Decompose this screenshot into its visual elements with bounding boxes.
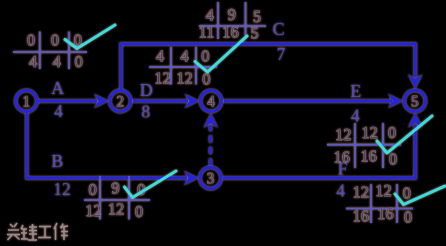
- wire A arrow 1-2: [38, 94, 108, 109]
- wire B arrow 1-3 bottom route: [27, 113, 199, 185]
- svg-text:0: 0: [135, 202, 143, 221]
- svg-text:12: 12: [108, 200, 125, 219]
- node 2: [110, 91, 131, 112]
- svg-text:12: 12: [154, 69, 171, 88]
- table D values row2 12 12 0: [154, 69, 210, 89]
- node 5: [404, 90, 425, 111]
- svg-text:9: 9: [228, 5, 236, 24]
- svg-text:0: 0: [51, 30, 59, 49]
- svg-text:D: D: [140, 80, 153, 100]
- svg-text:5: 5: [250, 23, 258, 42]
- svg-text:0: 0: [27, 30, 35, 49]
- svg-text:1: 1: [22, 94, 30, 111]
- table E values row1 12 12 0: [335, 123, 396, 144]
- table B values row1 0 9 0: [88, 179, 145, 199]
- table A times grid: [13, 32, 87, 70]
- svg-text:16: 16: [222, 23, 239, 42]
- svg-text:16: 16: [334, 147, 351, 166]
- svg-text:12: 12: [335, 125, 352, 144]
- table F values row1 12 12 0: [353, 181, 411, 203]
- svg-text:B: B: [51, 151, 63, 171]
- check mark 3 (table E): [377, 116, 432, 153]
- svg-text:4: 4: [54, 101, 63, 121]
- svg-text:4: 4: [180, 46, 188, 65]
- wire E arrow 4-5: [224, 94, 402, 109]
- svg-text:0: 0: [403, 184, 411, 203]
- svg-text:0: 0: [201, 46, 209, 65]
- svg-text:0: 0: [74, 52, 82, 71]
- wire D arrow 2-4: [133, 94, 199, 109]
- svg-text:5: 5: [411, 94, 419, 111]
- table F values row2 16 16 0: [353, 204, 413, 227]
- svg-text:E: E: [350, 81, 361, 101]
- node 4: [201, 91, 222, 112]
- check mark 4 (table F): [395, 186, 445, 205]
- svg-text:0: 0: [88, 180, 96, 199]
- table E values row2 16 16 0: [334, 147, 398, 169]
- svg-text:C: C: [273, 19, 285, 39]
- svg-text:12: 12: [176, 69, 193, 88]
- check mark 1 (table A): [65, 25, 115, 49]
- svg-text:3: 3: [207, 171, 215, 188]
- svg-text:4: 4: [207, 94, 215, 111]
- svg-text:16: 16: [377, 204, 394, 223]
- svg-text:16: 16: [353, 207, 370, 226]
- svg-text:16: 16: [360, 147, 377, 166]
- svg-text:9: 9: [111, 179, 119, 198]
- svg-text:12: 12: [375, 181, 392, 200]
- wire C arrow 2-5 top route: [121, 44, 423, 90]
- table B times grid: [84, 176, 150, 220]
- table C values row1 4 9 5: [206, 5, 262, 26]
- svg-text:7: 7: [277, 44, 286, 64]
- svg-text:A: A: [51, 78, 64, 98]
- svg-text:4: 4: [53, 52, 61, 71]
- table D values row1 4 4 0: [156, 46, 210, 65]
- node 1: [16, 90, 37, 111]
- table C values row2 11 16 5: [199, 23, 259, 43]
- check mark 2 (table D): [195, 36, 247, 72]
- svg-text:11: 11: [199, 23, 215, 42]
- svg-text:12: 12: [353, 183, 370, 202]
- table A values row2 4 4 0: [29, 52, 83, 71]
- wire F arrow 3-5 right route: [223, 113, 423, 178]
- node 3: [200, 167, 221, 188]
- check mark 5 (table B): [125, 171, 177, 198]
- svg-text:12: 12: [85, 201, 102, 220]
- caption 关键工作 strokes: [7, 223, 68, 240]
- wire dummy dashed arrow 3-4: [204, 113, 219, 165]
- svg-text:0: 0: [404, 208, 412, 227]
- table C times grid: [199, 2, 266, 39]
- svg-text:8: 8: [141, 101, 150, 121]
- svg-text:4: 4: [351, 105, 360, 125]
- table A values row1 0 0 0: [27, 30, 82, 49]
- svg-text:4: 4: [156, 46, 164, 65]
- svg-text:4: 4: [336, 181, 345, 201]
- svg-text:0: 0: [388, 123, 396, 142]
- table B values row2 12 12 0: [85, 200, 143, 221]
- svg-text:2: 2: [116, 94, 124, 111]
- table E times grid: [327, 123, 401, 168]
- svg-text:12: 12: [53, 179, 71, 199]
- svg-text:12: 12: [361, 123, 378, 142]
- svg-text:4: 4: [29, 52, 37, 71]
- table D times grid: [149, 47, 217, 85]
- table F times grid: [346, 184, 413, 223]
